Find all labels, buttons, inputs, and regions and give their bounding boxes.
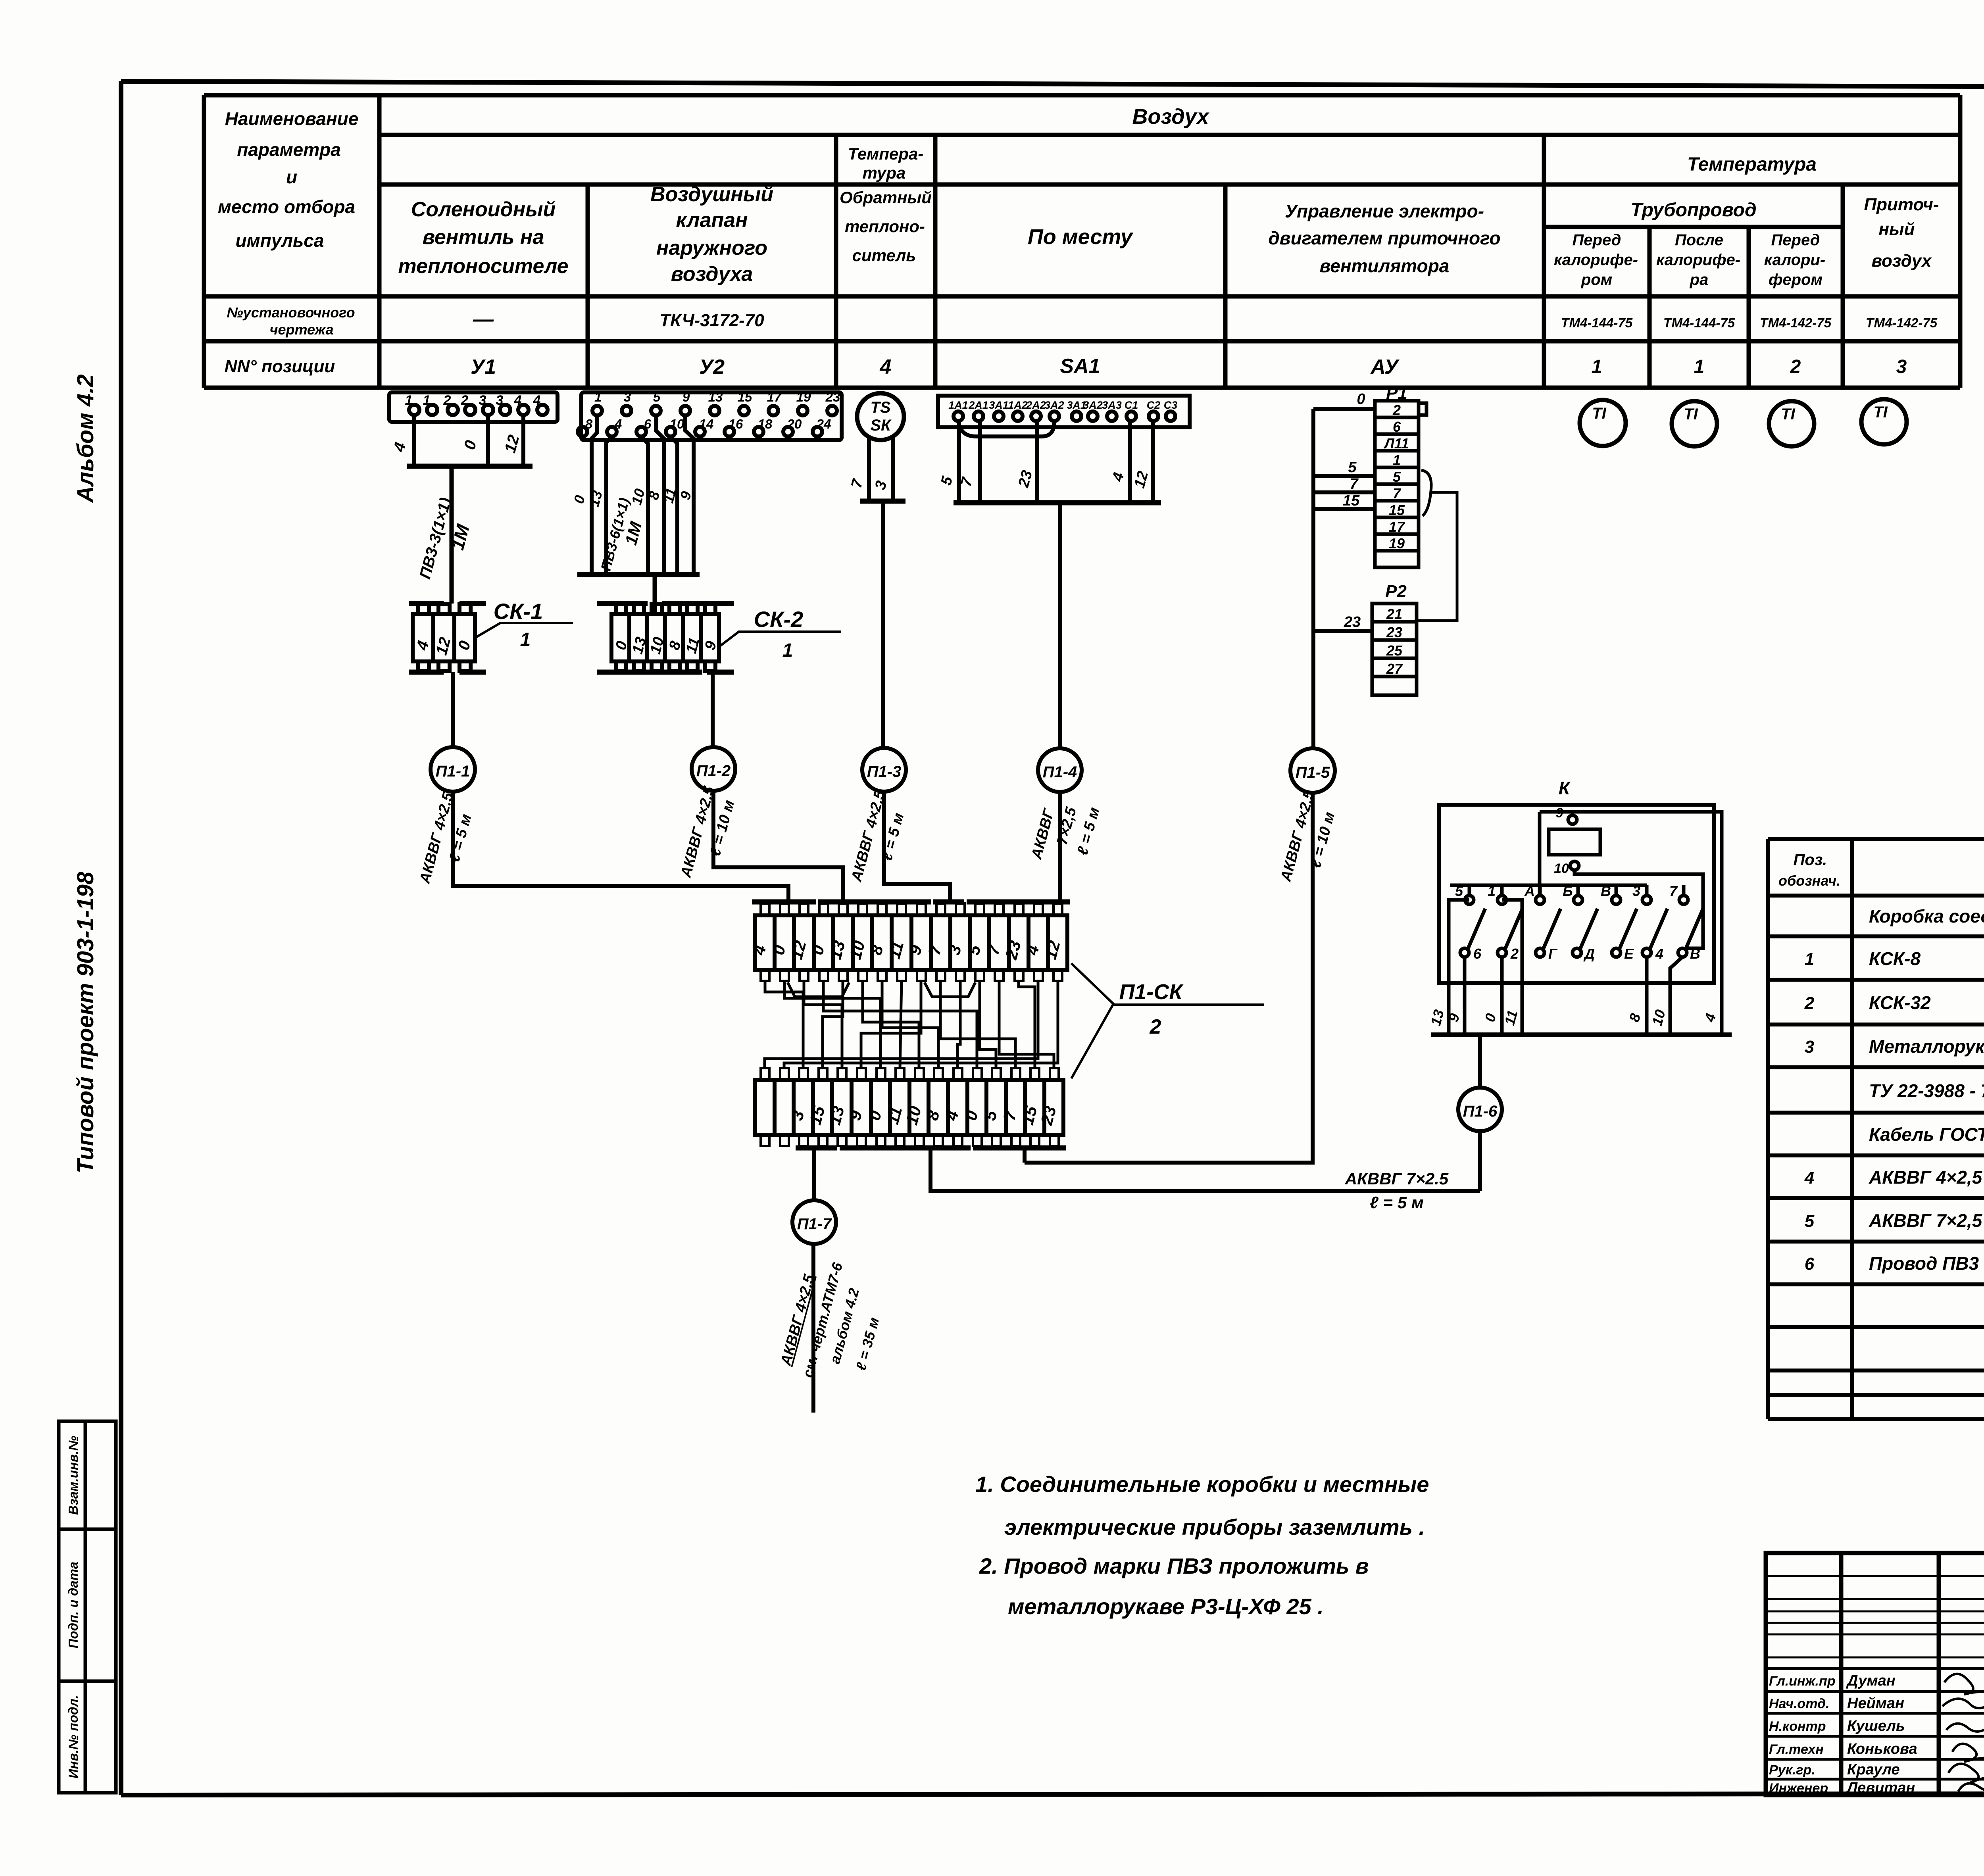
svg-text:параметра: параметра bbox=[237, 139, 341, 160]
svg-text:место отбора: место отбора bbox=[218, 196, 355, 217]
svg-text:ром: ром bbox=[1581, 271, 1612, 288]
wire СК-1 to П1-1 bbox=[451, 672, 455, 748]
svg-text:тура: тура bbox=[863, 163, 906, 182]
node cable label АКВВГ 4х2,5 см.черт.АТМ7-6 альбом 4.2 l=35м bbox=[777, 1261, 882, 1379]
svg-text:У1: У1 bbox=[471, 356, 496, 379]
svg-text:2А2: 2А2 bbox=[1026, 399, 1046, 411]
svg-text:1: 1 bbox=[1393, 452, 1401, 468]
svg-text:Темпера-: Темпера- bbox=[848, 144, 924, 163]
svg-text:4: 4 bbox=[1655, 946, 1663, 962]
svg-text:двигателем приточного: двигателем приточного bbox=[1268, 228, 1500, 248]
svg-text:3А2: 3А2 bbox=[1044, 399, 1064, 411]
node К switch top contacts bbox=[1455, 883, 1688, 904]
svg-text:ТМ4-142-75: ТМ4-142-75 bbox=[1760, 315, 1832, 330]
svg-text:Типовой проект 903-1-198: Типовой проект 903-1-198 bbox=[73, 871, 98, 1173]
wire cable ПВ3-6 to СК-2 bbox=[653, 575, 657, 614]
component relay block Р1 bbox=[1375, 383, 1426, 567]
svg-text:4: 4 bbox=[533, 393, 541, 408]
svg-text:15: 15 bbox=[1389, 502, 1405, 518]
svg-text:У2: У2 bbox=[699, 356, 725, 379]
node cable marker П1-1 bbox=[431, 747, 475, 792]
node signature rows bbox=[1769, 1672, 1984, 1796]
junction box П1-СК top terminal row bbox=[752, 902, 1070, 981]
svg-text:П1-4: П1-4 bbox=[1043, 763, 1077, 781]
svg-text:Металлорукав Р3-Ц-Х-Ф25: Металлорукав Р3-Ц-Х-Ф25 bbox=[1869, 1036, 1984, 1057]
svg-text:5: 5 bbox=[653, 390, 661, 404]
junction box СК-1 (КСК-8 поз.1) bbox=[409, 604, 486, 672]
svg-text:3: 3 bbox=[1805, 1037, 1814, 1057]
wire П1-6 to cable run bbox=[1478, 1131, 1482, 1191]
svg-text:ный: ный bbox=[1878, 219, 1915, 239]
svg-text:10: 10 bbox=[1554, 861, 1569, 876]
svg-text:Нач.отд.: Нач.отд. bbox=[1769, 1696, 1829, 1711]
svg-text:В: В bbox=[1601, 883, 1611, 899]
node cable label АКВВГ 4х2,5 l=5м (П1-1) bbox=[416, 790, 475, 886]
svg-text:1: 1 bbox=[594, 390, 602, 404]
svg-text:обознач.: обознач. bbox=[1778, 873, 1840, 889]
svg-text:Кушель: Кушель bbox=[1847, 1718, 1905, 1734]
wire П1-СК group to П1-5 cable (horizontal) bbox=[1023, 1148, 1027, 1163]
svg-text:ТКЧ-3172-70: ТКЧ-3172-70 bbox=[659, 311, 764, 330]
svg-text:воздуха: воздуха bbox=[671, 263, 753, 286]
svg-text:П1-1: П1-1 bbox=[436, 763, 470, 780]
svg-text:25: 25 bbox=[1386, 642, 1403, 659]
node SA1 wire labels 5 7 23 4 12 bbox=[938, 469, 1152, 490]
svg-text:П1-2: П1-2 bbox=[696, 762, 731, 780]
component switch box К bbox=[1439, 778, 1714, 983]
node cable marker П1-2 bbox=[692, 747, 735, 791]
svg-text:Альбом 4.2: Альбом 4.2 bbox=[73, 374, 98, 503]
svg-text:С3: С3 bbox=[1164, 399, 1178, 411]
svg-text:Трубопровод: Трубопровод bbox=[1630, 200, 1756, 221]
svg-text:и: и bbox=[286, 167, 297, 187]
svg-text:Рук.гр.: Рук.гр. bbox=[1769, 1763, 1815, 1778]
node notes text bbox=[975, 1472, 1429, 1619]
svg-text:клапан: клапан bbox=[676, 209, 748, 232]
svg-text:По месту: По месту bbox=[1028, 225, 1134, 249]
svg-text:П1-6: П1-6 bbox=[1463, 1103, 1498, 1120]
svg-text:4: 4 bbox=[1804, 1168, 1814, 1188]
svg-text:калорифе-: калорифе- bbox=[1656, 251, 1740, 269]
svg-text:2: 2 bbox=[1392, 402, 1401, 418]
svg-text:Конькова: Конькова bbox=[1847, 1741, 1917, 1757]
svg-text:Инженер: Инженер bbox=[1769, 1781, 1828, 1796]
svg-text:В: В bbox=[1690, 946, 1700, 962]
svg-text:1А1: 1А1 bbox=[948, 399, 968, 411]
wire Р1 bracket to Р2 bbox=[1417, 470, 1457, 621]
svg-text:теплоно-: теплоно- bbox=[845, 217, 925, 236]
svg-text:NN° позиции: NN° позиции bbox=[225, 357, 335, 376]
svg-text:15: 15 bbox=[1343, 492, 1360, 509]
svg-text:19: 19 bbox=[1389, 535, 1405, 552]
junction box П1-СК bottom terminal row bbox=[755, 1068, 1066, 1148]
svg-text:Воздушный: Воздушный bbox=[650, 183, 773, 206]
node parts row 4 АКВВГ 4х2,5 bbox=[1804, 1167, 1984, 1188]
wire К exits to bus bbox=[1431, 900, 1732, 1035]
node table position row bbox=[471, 355, 1907, 379]
wire П1-5 riser and branches bbox=[1313, 409, 1375, 748]
node cable label ПВ3-6(1х1) 1М bbox=[598, 496, 646, 573]
node stamp label Подп. и дата bbox=[66, 1562, 81, 1649]
wire strip2 wires to bus bbox=[577, 415, 700, 575]
svg-text:Коробка соединительная ТУ36.17: Коробка соединительная ТУ36.1753-75 bbox=[1869, 906, 1984, 926]
svg-text:Управление электро-: Управление электро- bbox=[1285, 201, 1484, 221]
node parts row ТУ 22-3988-77 bbox=[1869, 1080, 1984, 1101]
svg-text:27: 27 bbox=[1386, 661, 1403, 677]
svg-text:2А1: 2А1 bbox=[968, 399, 988, 411]
svg-text:Левитан: Левитан bbox=[1846, 1780, 1915, 1796]
svg-text:Н.контр: Н.контр bbox=[1769, 1719, 1826, 1734]
svg-text:13: 13 bbox=[708, 390, 723, 404]
svg-text:Гл.инж.пр: Гл.инж.пр bbox=[1769, 1674, 1836, 1689]
component thermometer ТI no.1 bbox=[1580, 400, 1626, 446]
svg-text:АУ: АУ bbox=[1370, 356, 1400, 379]
svg-text:3А2: 3А2 bbox=[1083, 399, 1103, 411]
svg-text:ра: ра bbox=[1690, 271, 1709, 288]
svg-text:7: 7 bbox=[1393, 485, 1401, 502]
node title block grid bbox=[1766, 1553, 1984, 1795]
node signature scribbles bbox=[1942, 1674, 1984, 1791]
svg-text:Г: Г bbox=[1548, 946, 1558, 962]
svg-text:вентиль на: вентиль на bbox=[423, 226, 544, 249]
svg-text:7: 7 bbox=[1669, 883, 1678, 899]
wire П1-2 cable АКВВГ to П1-СК bbox=[713, 791, 843, 901]
component relay coil in К bbox=[1549, 805, 1600, 876]
node left margin stamps bbox=[59, 1421, 116, 1793]
wire П1-СК group to П1-6 cable (horizontal) bbox=[930, 1148, 1480, 1191]
svg-text:3: 3 bbox=[1896, 356, 1907, 377]
svg-text:электрические приборы зазе: электрические приборы заземлить . bbox=[1004, 1515, 1425, 1540]
svg-text:К: К bbox=[1559, 778, 1571, 798]
svg-text:Р2: Р2 bbox=[1385, 582, 1407, 601]
svg-text:Б: Б bbox=[1563, 883, 1573, 899]
svg-text:20: 20 bbox=[787, 417, 802, 431]
svg-text:ℓ = 5 м: ℓ = 5 м bbox=[1370, 1193, 1424, 1212]
svg-text:Д: Д bbox=[1583, 946, 1595, 962]
svg-text:23: 23 bbox=[1386, 624, 1402, 640]
svg-text:2: 2 bbox=[1790, 356, 1801, 377]
svg-text:5: 5 bbox=[1805, 1211, 1815, 1231]
svg-text:Инв.№ подл.: Инв.№ подл. bbox=[66, 1695, 81, 1778]
node wire labels 4 0 12 bbox=[390, 433, 523, 454]
node parts row 2 КСК-32 bbox=[1804, 992, 1984, 1013]
svg-text:ТМ4-144-75: ТМ4-144-75 bbox=[1561, 315, 1633, 330]
node cable label АКВВГ 7х2,5 l=5м (П1-6 run) bbox=[1345, 1169, 1449, 1212]
svg-text:После: После bbox=[1675, 231, 1723, 249]
node cable marker П1-7 bbox=[792, 1200, 836, 1244]
node terminal strip XT1 (У1) bbox=[389, 392, 558, 422]
svg-text:6: 6 bbox=[1805, 1254, 1815, 1274]
svg-text:2: 2 bbox=[443, 393, 451, 408]
svg-text:6: 6 bbox=[644, 417, 652, 431]
svg-text:21: 21 bbox=[1386, 606, 1402, 622]
node signal table grid bbox=[204, 95, 1960, 388]
svg-text:Поз.: Поз. bbox=[1794, 851, 1827, 869]
svg-text:ТI: ТI bbox=[1684, 406, 1698, 423]
svg-text:Температура: Температура bbox=[1687, 154, 1817, 175]
node terminal strip SA1 bbox=[938, 396, 1190, 427]
wire К bus to П1-6 bbox=[1478, 1035, 1482, 1088]
node cable label АКВВГ 4х25 l=10м (П1-2) bbox=[677, 784, 738, 880]
svg-text:4: 4 bbox=[514, 393, 522, 408]
component thermometer ТI no.2 bbox=[1672, 401, 1717, 446]
node parts row Кабель ГОСТ bbox=[1869, 1124, 1984, 1145]
svg-text:6: 6 bbox=[1473, 946, 1482, 962]
svg-text:№установочного: №установочного bbox=[227, 304, 355, 321]
component thermometer ТI no.4 bbox=[1861, 399, 1907, 444]
svg-text:1: 1 bbox=[1488, 883, 1496, 899]
node label П1-СК / 2 bbox=[1071, 963, 1264, 1078]
node stamp label Инв.№ подл. bbox=[66, 1695, 81, 1778]
svg-text:ТУ 22-3988 - 77: ТУ 22-3988 - 77 bbox=[1869, 1080, 1984, 1101]
svg-text:19: 19 bbox=[796, 390, 811, 404]
node margin text Типовой проект 903-1-198 bbox=[73, 871, 98, 1173]
svg-text:5: 5 bbox=[1393, 469, 1401, 485]
node cable marker П1-6 bbox=[1458, 1088, 1502, 1131]
svg-text:Гл.техн: Гл.техн bbox=[1769, 1742, 1824, 1757]
wire К switch blades bbox=[1468, 909, 1703, 949]
svg-text:2: 2 bbox=[1510, 946, 1519, 962]
svg-text:5: 5 bbox=[1455, 883, 1463, 899]
svg-text:2: 2 bbox=[1150, 1015, 1161, 1038]
svg-text:5: 5 bbox=[1348, 459, 1357, 476]
svg-text:3: 3 bbox=[1632, 883, 1640, 899]
wire SA1 jumper 1А1-3А2 bbox=[958, 421, 1054, 436]
node title block left rows bbox=[1766, 1576, 1984, 1657]
svg-text:чертежа: чертежа bbox=[269, 321, 333, 338]
junction box СК-2 (КСК-8 поз.1) bbox=[597, 604, 734, 672]
wire TS/SK to bus bbox=[860, 436, 905, 501]
svg-text:1: 1 bbox=[423, 393, 431, 408]
svg-text:15: 15 bbox=[738, 390, 752, 404]
svg-text:АКВВГ 4×2,5: АКВВГ 4×2,5 bbox=[1869, 1167, 1983, 1188]
svg-text:теплоносителе: теплоносителе bbox=[398, 255, 568, 278]
svg-text:ТI: ТI bbox=[1781, 406, 1795, 423]
node table header texts bbox=[218, 105, 1939, 376]
svg-text:металлорукаве Р3-Ц-ХФ 25 .: металлорукаве Р3-Ц-ХФ 25 . bbox=[1008, 1594, 1324, 1619]
svg-text:С2: С2 bbox=[1147, 399, 1161, 411]
svg-text:А: А bbox=[1524, 883, 1535, 899]
node parts row 6 Провод ПВ3 bbox=[1805, 1253, 1984, 1274]
node cable label АКВВГ 4х2,5 l=10м (П1-5) bbox=[1277, 788, 1338, 884]
svg-text:0: 0 bbox=[1357, 391, 1365, 407]
svg-text:Крауле: Крауле bbox=[1847, 1761, 1900, 1778]
svg-text:1: 1 bbox=[520, 629, 531, 650]
wire cable ПВ3-3 to СК-1 bbox=[450, 466, 454, 604]
svg-text:фером: фером bbox=[1769, 271, 1823, 288]
svg-text:СК-1: СК-1 bbox=[494, 599, 543, 624]
node СК-2 cell labels 0 13 10 8 11 9 bbox=[612, 635, 720, 656]
node П1-СК top row labels bbox=[749, 939, 1064, 962]
node parts table header bbox=[1778, 851, 1984, 889]
node К switch rail bbox=[1450, 884, 1647, 887]
svg-text:калорифе-: калорифе- bbox=[1554, 251, 1638, 269]
svg-text:ТМ4-142-75: ТМ4-142-75 bbox=[1866, 315, 1938, 330]
svg-text:Перед: Перед bbox=[1771, 231, 1820, 249]
svg-text:П1-5: П1-5 bbox=[1296, 764, 1330, 781]
node branch labels 0 5 7 15 bbox=[1343, 391, 1365, 509]
svg-text:4: 4 bbox=[614, 417, 622, 431]
svg-text:ТI: ТI bbox=[1592, 405, 1606, 422]
svg-text:Е: Е bbox=[1624, 946, 1634, 962]
node cable label ПВ3-3(1х1) 1М bbox=[416, 496, 473, 581]
svg-text:1: 1 bbox=[1805, 950, 1814, 969]
node parts row 3 Металлорукав bbox=[1805, 1036, 1984, 1057]
wire П1-СК to П1-7 bbox=[812, 1148, 816, 1201]
svg-text:17: 17 bbox=[1389, 519, 1405, 535]
svg-text:2: 2 bbox=[461, 393, 469, 408]
svg-text:ТМ4-144-75: ТМ4-144-75 bbox=[1663, 315, 1735, 330]
node stamp label Взам.инв.№ bbox=[66, 1436, 81, 1515]
svg-text:10: 10 bbox=[670, 417, 684, 431]
svg-text:Перед: Перед bbox=[1573, 231, 1621, 249]
svg-text:вентилятора: вентилятора bbox=[1320, 256, 1450, 276]
node table drawing-number row bbox=[473, 308, 1938, 331]
svg-text:24: 24 bbox=[816, 417, 831, 431]
svg-text:П1-3: П1-3 bbox=[867, 763, 902, 780]
node parts row 5 АКВВГ 7х2,5 bbox=[1805, 1210, 1984, 1231]
wire К coil terminal 9 connections bbox=[1540, 812, 1722, 1035]
svg-text:ситель: ситель bbox=[852, 246, 916, 265]
svg-text:SA1: SA1 bbox=[1060, 355, 1100, 378]
svg-text:П1-СК: П1-СК bbox=[1119, 980, 1184, 1004]
svg-text:С1: С1 bbox=[1125, 399, 1138, 411]
svg-text:Соленоидный: Соленоидный bbox=[411, 198, 556, 221]
node parts table grid bbox=[1768, 839, 1984, 1419]
wire strip1 to bus bbox=[407, 415, 533, 466]
svg-text:1: 1 bbox=[405, 393, 413, 408]
node СК-1 cell labels 4 12 0 bbox=[413, 635, 474, 657]
svg-text:3: 3 bbox=[496, 393, 504, 408]
node label СК-1 / 1 bbox=[475, 599, 573, 650]
svg-text:16: 16 bbox=[729, 417, 743, 431]
svg-text:воздух: воздух bbox=[1872, 251, 1932, 271]
svg-text:9: 9 bbox=[682, 390, 690, 404]
svg-text:Нейман: Нейман bbox=[1847, 1695, 1904, 1712]
svg-text:1: 1 bbox=[1592, 356, 1602, 377]
svg-text:6: 6 bbox=[1393, 419, 1401, 435]
node terminal strip XT2 (У2) bbox=[578, 390, 842, 440]
svg-text:КСК-32: КСК-32 bbox=[1869, 992, 1931, 1013]
node TS wire labels 7 3 bbox=[848, 477, 890, 491]
svg-text:Воздух: Воздух bbox=[1132, 105, 1210, 129]
component thermometer ТI no.3 bbox=[1769, 401, 1814, 446]
svg-text:1: 1 bbox=[1694, 356, 1705, 377]
node label СК-2 / 1 bbox=[719, 607, 841, 661]
node margin text Альбом 4.2 bbox=[73, 374, 98, 503]
node К switch bottom contacts bbox=[1460, 946, 1700, 962]
svg-text:Приточ-: Приточ- bbox=[1864, 195, 1939, 214]
svg-text:1: 1 bbox=[782, 640, 793, 661]
svg-text:1. Соединительные коробки: 1. Соединительные коробки и местные bbox=[975, 1472, 1429, 1497]
svg-text:Л11: Л11 bbox=[1383, 435, 1409, 452]
svg-text:18: 18 bbox=[758, 417, 773, 431]
svg-text:Наименование: Наименование bbox=[225, 108, 359, 129]
svg-text:АКВВГ 7×2,5: АКВВГ 7×2,5 bbox=[1869, 1210, 1983, 1231]
svg-text:калори-: калори- bbox=[1764, 251, 1825, 269]
svg-text:Думан: Думан bbox=[1846, 1672, 1896, 1689]
svg-text:КСК-8: КСК-8 bbox=[1869, 948, 1921, 969]
wire TS bus to П1-3 bbox=[881, 501, 885, 748]
component relay block Р2 bbox=[1372, 582, 1417, 695]
wire SA1 wires to bus bbox=[954, 421, 1161, 503]
svg-text:АКВВГ 7×2.5: АКВВГ 7×2.5 bbox=[1345, 1169, 1449, 1188]
wire П1-СК internal jumpers bbox=[765, 981, 1058, 1068]
svg-text:Обратный: Обратный bbox=[840, 188, 932, 207]
svg-text:—: — bbox=[473, 308, 494, 331]
node cable marker П1-5 bbox=[1290, 748, 1335, 793]
wire П1-1 cable АКВВГ to П1-СК bbox=[453, 792, 788, 901]
svg-text:3: 3 bbox=[479, 393, 486, 408]
svg-text:1А2: 1А2 bbox=[1008, 399, 1028, 411]
svg-text:SК: SК bbox=[870, 417, 892, 434]
node cable label АКВВГ 4х25 l=5м (П1-3) bbox=[848, 788, 907, 884]
svg-text:2. Провод марки ПВЗ пр: 2. Провод марки ПВЗ проложить в bbox=[979, 1553, 1369, 1578]
svg-text:П1-7: П1-7 bbox=[797, 1215, 832, 1233]
wire СК-2 to П1-2 bbox=[711, 672, 715, 747]
svg-text:3А1: 3А1 bbox=[989, 399, 1009, 411]
svg-text:ТI: ТI bbox=[1873, 404, 1888, 421]
node К exit labels 13 9 0 11 8 10 4 bbox=[1427, 1008, 1719, 1027]
svg-text:Кабель ГОСТ 1508 - 78: Кабель ГОСТ 1508 - 78 bbox=[1869, 1124, 1984, 1145]
node parts row 1 КСК-8 bbox=[1805, 948, 1984, 969]
wire П1-3 cable АКВВГ to П1-СК bbox=[884, 792, 950, 901]
wire П1-5 cable down to П1-СК bbox=[1025, 793, 1313, 1163]
node cable marker П1-3 bbox=[862, 748, 906, 792]
svg-text:14: 14 bbox=[699, 417, 714, 431]
wire branch 23 to Р2 bbox=[1313, 629, 1372, 633]
svg-text:импульса: импульса bbox=[236, 230, 324, 251]
node strip2 wire labels 0 13 10 8 11 9 bbox=[571, 486, 695, 508]
wire SA1 bus to П1-4 bbox=[1058, 503, 1062, 748]
wire П1-7 cable down bbox=[811, 1244, 815, 1413]
svg-text:Провод ПВ3 1 380 ГОСТ 6323- 7: Провод ПВ3 1 380 ГОСТ 6323- 79 bbox=[1869, 1253, 1984, 1274]
svg-text:ТS: ТS bbox=[870, 399, 890, 416]
svg-text:3: 3 bbox=[624, 390, 631, 404]
node cable label АКВВГ 7х2,5 l=5м (П1-4) bbox=[1028, 805, 1103, 861]
svg-text:8: 8 bbox=[585, 417, 593, 431]
svg-text:2: 2 bbox=[1804, 994, 1815, 1013]
svg-text:23: 23 bbox=[825, 390, 840, 404]
wire П1-4 cable to П1-СК bbox=[1058, 792, 1062, 901]
wire К coil terminal 10 connections bbox=[1575, 870, 1703, 948]
svg-text:17: 17 bbox=[767, 390, 782, 404]
svg-text:23: 23 bbox=[1344, 614, 1361, 630]
svg-text:наружного: наружного bbox=[656, 236, 767, 259]
svg-text:3А3: 3А3 bbox=[1102, 399, 1122, 411]
svg-text:СК-2: СК-2 bbox=[754, 607, 804, 632]
node cable marker П1-4 bbox=[1038, 748, 1082, 792]
node branch label 23 bbox=[1344, 614, 1361, 630]
component TS/SK thermostat bbox=[857, 393, 904, 440]
svg-text:4: 4 bbox=[880, 356, 892, 379]
node П1-СК bottom row labels bbox=[787, 1104, 1059, 1127]
node parts row Коробка соединительная bbox=[1869, 906, 1984, 926]
svg-text:Взам.инв.№: Взам.инв.№ bbox=[66, 1436, 81, 1515]
svg-text:Подп. и дата: Подп. и дата bbox=[66, 1562, 81, 1649]
svg-text:7: 7 bbox=[1350, 476, 1359, 492]
